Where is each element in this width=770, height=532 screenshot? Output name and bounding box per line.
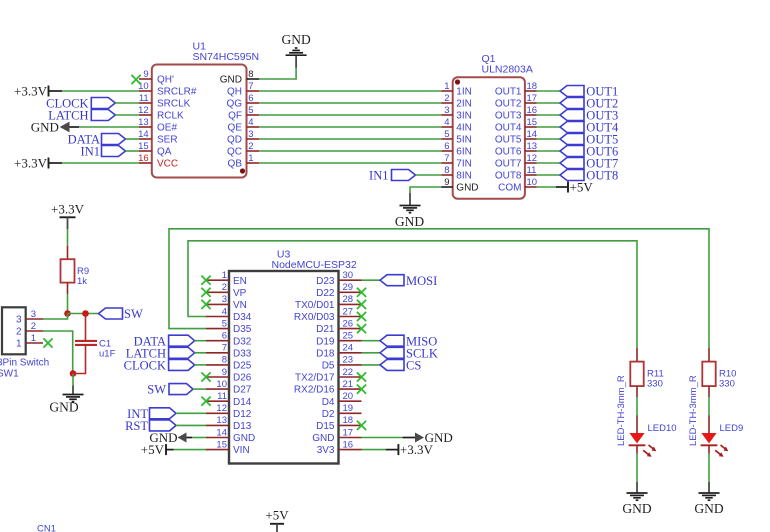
power +3.3V above R9 <box>51 202 85 230</box>
svg-text:6IN: 6IN <box>456 147 472 158</box>
wire Q1 OUT7 to flag <box>537 162 561 164</box>
svg-text:5IN: 5IN <box>456 135 472 146</box>
svg-text:GND: GND <box>456 183 478 194</box>
wire +3.3V to R9 <box>67 229 69 246</box>
svg-text:3: 3 <box>444 105 449 116</box>
svg-text:D21: D21 <box>316 324 335 335</box>
svg-text:10: 10 <box>216 379 227 390</box>
power +3.3V at U1 pin 10 <box>14 84 62 99</box>
svg-text:3: 3 <box>248 129 253 140</box>
svg-text:TX0/D01: TX0/D01 <box>295 300 335 311</box>
netflag IN1 flag (at Q1) <box>392 170 416 181</box>
svg-text:D12: D12 <box>233 409 252 420</box>
svg-text:OUT3: OUT3 <box>495 111 522 122</box>
svg-text:12: 12 <box>138 105 149 116</box>
Q1 pin-1 marker dot <box>455 79 460 84</box>
wire CLOCK to U1 pin 11 <box>115 102 139 104</box>
wire CLOCK to U3 <box>195 364 206 366</box>
module U3 NodeMCU-ESP32 body <box>229 271 339 464</box>
svg-text:ULN2803A: ULN2803A <box>482 63 533 75</box>
svg-text:LED10: LED10 <box>648 423 677 434</box>
svg-text:IN1: IN1 <box>369 169 388 183</box>
Q1 pin 1 1IN <box>441 90 453 92</box>
wire U3 pin 30 to MOSI flag <box>362 279 381 281</box>
resistor R11 body <box>630 362 643 387</box>
wire R10 to LED9 <box>708 397 710 416</box>
U1 pin 11 SRCLK <box>139 102 152 104</box>
U3 pin 1 EN <box>206 279 229 281</box>
svg-text:8: 8 <box>248 69 253 80</box>
Q1 pin 11 OUT8 <box>525 174 537 176</box>
svg-text:D25: D25 <box>233 361 252 372</box>
svg-text:16: 16 <box>527 105 538 116</box>
svg-text:11: 11 <box>527 165 537 176</box>
LED LED9 emission arrows <box>715 445 728 457</box>
svg-text:26: 26 <box>343 318 354 329</box>
ground GND at U3 pin 17 <box>403 430 453 445</box>
svg-text:SW: SW <box>124 307 143 321</box>
SW1 pin 2 <box>26 330 43 332</box>
svg-text:CLOCK: CLOCK <box>124 359 166 373</box>
U3 pin 4 D34 <box>206 316 229 318</box>
svg-text:OUT8: OUT8 <box>495 171 522 182</box>
svg-text:QC: QC <box>227 147 242 158</box>
U1 pin 2 QC <box>247 150 260 152</box>
resistor R9 bottom lead <box>67 283 69 294</box>
svg-text:+5V: +5V <box>141 442 165 457</box>
svg-text:1k: 1k <box>77 276 87 287</box>
LED LED10 triangle <box>629 433 644 443</box>
no-connect X on U3 pin 27 <box>357 312 366 321</box>
U1 pin 7 QH <box>247 90 260 92</box>
svg-text:2: 2 <box>248 141 253 152</box>
svg-text:18: 18 <box>527 81 538 92</box>
svg-text:D19: D19 <box>316 336 335 347</box>
U1 pin-1 marker dot <box>240 168 245 173</box>
ground symbol GND (below LED9) <box>708 482 710 493</box>
wire QB-7IN <box>259 162 441 164</box>
netflag OUT4 flag <box>560 122 584 133</box>
no-connect X on U3 pin 26 <box>357 324 366 333</box>
no-connect X on U3 pin 18 <box>357 421 366 430</box>
svg-text:QH: QH <box>227 87 242 98</box>
svg-text:GND: GND <box>31 120 59 135</box>
wire LED9 to GND <box>708 454 710 482</box>
svg-text:+5V: +5V <box>265 508 289 523</box>
svg-text:EN: EN <box>233 276 247 287</box>
power +5V (bottom) <box>265 508 289 532</box>
svg-text:+3.3V: +3.3V <box>14 156 48 171</box>
IC Q1 ULN2803A body <box>453 77 525 198</box>
svg-text:5: 5 <box>248 105 253 116</box>
LED LED10 cathode bar <box>629 444 646 446</box>
netflag LATCH flag (at U3) <box>169 347 195 358</box>
svg-text:27: 27 <box>343 306 354 317</box>
svg-text:22: 22 <box>343 367 354 378</box>
wire LATCH to U3 <box>195 352 206 354</box>
svg-text:30: 30 <box>343 270 354 281</box>
svg-text:D27: D27 <box>233 385 252 396</box>
U3 pin 5 D35 <box>206 328 229 330</box>
svg-text:SW: SW <box>147 383 166 397</box>
U3 pin 28 TX0/D01 <box>339 303 362 305</box>
wire INT to U3 <box>176 412 206 414</box>
U1 pin 14 SER <box>139 138 152 140</box>
wire Q1 OUT4 to flag <box>537 126 561 128</box>
netflag DATA flag <box>102 134 126 145</box>
netflag SW flag (at switch) <box>99 308 123 319</box>
svg-text:330: 330 <box>647 379 663 390</box>
svg-text:D34: D34 <box>233 312 252 323</box>
svg-text:12: 12 <box>216 403 227 414</box>
svg-text:2: 2 <box>222 282 227 293</box>
U3 pin 13 D13 <box>206 424 229 426</box>
no-connect X on U3 pin 3 <box>201 300 210 309</box>
svg-text:13: 13 <box>138 117 149 128</box>
U3 pin 29 D22 <box>339 291 362 293</box>
U1 pin 3 QD <box>247 138 260 140</box>
resistor R10 body <box>702 362 715 387</box>
U3 pin 18 D15 <box>339 424 362 426</box>
netflag OUT8 flag <box>560 170 584 181</box>
netflag IN1 flag (left) <box>102 146 126 157</box>
netflag INT flag <box>150 408 177 419</box>
netflag MOSI flag <box>380 275 404 286</box>
svg-text:15: 15 <box>216 439 227 450</box>
wire switch pin 2 to ground node <box>43 331 73 374</box>
svg-text:D4: D4 <box>322 397 335 408</box>
LED LED9 cathode lead <box>708 445 710 453</box>
svg-text:LED9: LED9 <box>720 423 744 434</box>
svg-text:GND: GND <box>281 32 310 47</box>
svg-text:LED-TH-3mm_R: LED-TH-3mm_R <box>688 375 699 446</box>
wire junction to SW flag <box>68 313 99 315</box>
netflag OUT6 flag <box>560 146 584 157</box>
svg-text:5: 5 <box>444 129 449 140</box>
wire IN1 to U1 pin 15 <box>126 150 140 152</box>
wire IN1 to Q1 pin 8 <box>416 174 442 176</box>
Q1 pin 3 3IN <box>441 114 453 116</box>
svg-text:QG: QG <box>226 99 242 110</box>
svg-text:21: 21 <box>343 379 354 390</box>
svg-text:17: 17 <box>343 427 354 438</box>
svg-text:+3.3V: +3.3V <box>400 442 434 457</box>
Q1 pin 16 OUT3 <box>525 114 537 116</box>
wire Q1 OUT2 to flag <box>537 102 561 104</box>
svg-text:6: 6 <box>222 331 227 342</box>
svg-text:SRCLK: SRCLK <box>157 99 191 110</box>
svg-text:SRCLR#: SRCLR# <box>157 87 197 98</box>
wire U3 pin 16 to +3.3V <box>362 449 386 451</box>
ground GND at U3 pin 14 <box>149 430 192 445</box>
svg-text:QH': QH' <box>157 75 174 86</box>
svg-text:3: 3 <box>31 309 36 320</box>
svg-text:4: 4 <box>248 117 253 128</box>
U3 pin 22 TX2/D17 <box>339 376 362 378</box>
svg-text:20: 20 <box>343 391 354 402</box>
no-connect X on SW1 pin 1 <box>43 338 52 347</box>
U3 pin 30 D23 <box>339 279 362 281</box>
svg-text:SER: SER <box>157 135 178 146</box>
svg-text:23: 23 <box>343 355 354 366</box>
U3 pin 12 D12 <box>206 412 229 414</box>
netflag MISO flag <box>380 335 404 346</box>
svg-text:5: 5 <box>222 318 227 329</box>
U3 pin 11 D14 <box>206 400 229 402</box>
svg-text:CN1: CN1 <box>37 524 56 532</box>
resistor R11 bottom lead <box>636 386 638 397</box>
resistor R10 top lead <box>708 348 710 362</box>
U3 pin 26 D21 <box>339 328 362 330</box>
no-connect X on U3 pin 29 <box>357 288 366 297</box>
svg-text:VN: VN <box>233 300 247 311</box>
SW1 pin 3 <box>26 318 43 320</box>
svg-text:28: 28 <box>343 294 354 305</box>
svg-text:11: 11 <box>217 391 227 402</box>
netflag DATA flag (at U3) <box>169 335 195 346</box>
switch SW1 body <box>2 307 26 354</box>
svg-text:10: 10 <box>527 177 538 188</box>
svg-text:7: 7 <box>222 343 227 354</box>
netflag OUT5 flag <box>560 134 584 145</box>
U1 pin 10 SRCLR# <box>139 90 152 92</box>
svg-text:VCC: VCC <box>157 159 178 170</box>
svg-text:TX2/D17: TX2/D17 <box>295 373 335 384</box>
U3 pin 17 GND <box>339 437 362 439</box>
resistor R10 bottom lead <box>708 386 710 397</box>
resistor R9 top lead <box>67 246 69 259</box>
U1 pin 6 QG <box>247 102 260 104</box>
svg-text:7IN: 7IN <box>456 159 472 170</box>
svg-text:RX2/D16: RX2/D16 <box>294 385 335 396</box>
LED LED10 emission arrows <box>643 445 656 457</box>
wire U3 to CS flag <box>362 364 381 366</box>
svg-text:D26: D26 <box>233 373 252 384</box>
svg-text:D33: D33 <box>233 348 252 359</box>
Q1 pin 4 4IN <box>441 126 453 128</box>
svg-text:OE#: OE# <box>157 123 177 134</box>
no-connect X on U3 pin 9 <box>201 372 210 381</box>
LED LED10 anode lead <box>636 416 638 434</box>
Q1 pin 10 COM <box>525 186 537 188</box>
wire net D35 (outer loop, U3 pin 5 to R10) <box>169 229 709 348</box>
U3 pin 20 D4 <box>339 400 362 402</box>
no-connect X on U3 pin 11 <box>201 397 210 406</box>
svg-text:LED-TH-3mm_R: LED-TH-3mm_R <box>616 375 627 446</box>
SW1 pin 1 <box>26 342 43 344</box>
svg-text:+3.3V: +3.3V <box>51 202 85 217</box>
U3 pin 19 D2 <box>339 412 362 414</box>
no-connect X on U3 pin 2 <box>201 288 210 297</box>
no-connect X on U3 pin 1 <box>201 276 210 285</box>
wire Q1 OUT6 to flag <box>537 150 561 152</box>
svg-text:CS: CS <box>406 359 421 373</box>
wire Q1 OUT8 to flag <box>537 174 561 176</box>
U3 pin 25 D19 <box>339 340 362 342</box>
ground symbol GND (below C1) <box>72 386 74 395</box>
svg-text:D5: D5 <box>322 361 335 372</box>
U1 pin 1 QB <box>247 162 260 164</box>
svg-text:COM: COM <box>498 183 521 194</box>
svg-text:18: 18 <box>343 415 354 426</box>
U3 pin 7 D33 <box>206 352 229 354</box>
svg-text:15: 15 <box>527 117 538 128</box>
wire Q1 OUT1 to flag <box>537 90 561 92</box>
U1 pin 12 RCLK <box>139 114 152 116</box>
U3 pin 9 D26 <box>206 376 229 378</box>
svg-text:6: 6 <box>444 141 449 152</box>
svg-text:1: 1 <box>16 339 22 350</box>
wire R9 to junction <box>67 294 69 314</box>
no-connect X on U3 pin 21 <box>357 385 366 394</box>
capacitor C1 top lead <box>85 314 87 341</box>
svg-text:RST: RST <box>125 419 148 433</box>
svg-text:16: 16 <box>343 439 354 450</box>
ground symbol GND (below Q1) <box>409 193 411 205</box>
svg-text:D2: D2 <box>322 409 335 420</box>
svg-text:11: 11 <box>139 93 149 104</box>
wire net D34 (inner loop, U3 pin 4 to R11) <box>188 241 637 348</box>
svg-text:OUT2: OUT2 <box>495 99 522 110</box>
svg-text:17: 17 <box>527 93 538 104</box>
svg-text:GND: GND <box>312 433 334 444</box>
U3 pin 14 GND <box>206 437 229 439</box>
wire U1 pin 8 to ground symbol <box>259 68 296 79</box>
svg-text:u1F: u1F <box>99 349 116 360</box>
wire DATA to U1 pin 14 <box>126 138 140 140</box>
svg-text:GND: GND <box>694 501 723 516</box>
svg-text:VP: VP <box>233 288 247 299</box>
svg-text:OUT6: OUT6 <box>495 147 522 158</box>
svg-text:3IN: 3IN <box>456 111 472 122</box>
svg-text:OUT1: OUT1 <box>495 87 522 98</box>
LED LED9 anode lead <box>708 416 710 434</box>
capacitor C1 bottom lead <box>73 345 86 374</box>
svg-text:4IN: 4IN <box>456 123 472 134</box>
netflag SCLK flag <box>380 347 404 358</box>
power +5V at Q1 pin 10 COM <box>556 180 593 195</box>
wire GND to U1 pin 13 <box>79 126 139 128</box>
svg-text:7: 7 <box>248 81 253 92</box>
resistor R9 body <box>61 259 75 282</box>
wire node to GND below C1 <box>72 374 74 386</box>
netflag OUT1 flag <box>560 86 584 97</box>
netflag CLOCK flag <box>91 98 115 109</box>
netflag SW flag (at U3) <box>169 384 193 395</box>
svg-text:9: 9 <box>222 367 227 378</box>
svg-text:14: 14 <box>216 427 227 438</box>
node junction at C1 bottom <box>70 370 77 377</box>
netflag CS flag <box>380 359 404 370</box>
wire +3.3V to U1 pin 16 <box>62 162 139 164</box>
wire +3.3V to U1 pin 10 <box>62 90 139 92</box>
svg-text:8IN: 8IN <box>456 171 472 182</box>
netflag OUT2 flag <box>560 98 584 109</box>
svg-text:12: 12 <box>527 153 538 164</box>
svg-text:24: 24 <box>343 343 354 354</box>
ground symbol GND (below LED10) <box>636 482 638 493</box>
svg-text:D18: D18 <box>316 348 335 359</box>
svg-text:3: 3 <box>16 315 22 326</box>
svg-text:4: 4 <box>222 306 227 317</box>
U3 pin 6 D32 <box>206 340 229 342</box>
svg-text:IN1: IN1 <box>81 145 100 159</box>
svg-text:3V3: 3V3 <box>317 445 335 456</box>
U3 pin 16 3V3 <box>339 449 362 451</box>
svg-text:9: 9 <box>143 69 148 80</box>
Q1 pin 7 7IN <box>441 162 453 164</box>
U3 pin 21 RX2/D16 <box>339 388 362 390</box>
svg-text:15: 15 <box>138 141 149 152</box>
U1 pin 15 QA <box>139 150 152 152</box>
netflag OUT7 flag <box>560 158 584 169</box>
resistor R11 top lead <box>636 348 638 362</box>
ground symbol GND (top, near U1) <box>295 55 297 68</box>
U3 pin 8 D25 <box>206 364 229 366</box>
svg-text:GND: GND <box>233 433 255 444</box>
svg-text:OUT8: OUT8 <box>586 169 618 183</box>
svg-text:NodeMCU-ESP32: NodeMCU-ESP32 <box>272 259 357 271</box>
wire LATCH to U1 pin 12 <box>115 114 139 116</box>
svg-text:3Pin Switch: 3Pin Switch <box>0 357 49 368</box>
Q1 pin 12 OUT7 <box>525 162 537 164</box>
svg-text:9: 9 <box>444 177 449 188</box>
svg-text:2: 2 <box>444 93 449 104</box>
U3 pin 3 VN <box>206 303 229 305</box>
U3 pin 23 D5 <box>339 364 362 366</box>
U1 pin 16 VCC <box>139 162 152 164</box>
LED LED10 cathode lead <box>636 445 638 453</box>
U1 pin 8 GND <box>247 78 260 80</box>
svg-text:RX0/D03: RX0/D03 <box>294 312 335 323</box>
svg-text:1: 1 <box>444 81 449 92</box>
svg-text:SW1: SW1 <box>0 368 19 379</box>
svg-text:D14: D14 <box>233 397 252 408</box>
svg-text:D13: D13 <box>233 421 252 432</box>
U3 pin 15 VIN <box>206 449 229 451</box>
svg-text:14: 14 <box>527 129 538 140</box>
svg-text:7: 7 <box>444 153 449 164</box>
svg-text:QB: QB <box>228 159 243 170</box>
Q1 pin 9 GND <box>441 186 453 188</box>
netflag OUT3 flag <box>560 110 584 121</box>
U1 pin 9 QH' <box>139 78 152 80</box>
svg-text:8: 8 <box>444 165 449 176</box>
wire LED10 to GND <box>636 454 638 482</box>
svg-text:D32: D32 <box>233 336 252 347</box>
svg-text:QD: QD <box>227 135 242 146</box>
Q1 pin 2 2IN <box>441 102 453 104</box>
wire U3 to MISO flag <box>362 340 381 342</box>
power +3.3V at U1 pin 16 VCC <box>14 156 62 171</box>
wire U3 pin 17 to GND <box>362 437 403 439</box>
netflag RST flag <box>150 420 177 431</box>
svg-text:8: 8 <box>222 355 227 366</box>
svg-text:13: 13 <box>527 141 538 152</box>
svg-text:GND: GND <box>395 214 424 229</box>
Q1 pin 6 6IN <box>441 150 453 152</box>
wire QD-5IN <box>259 138 441 140</box>
netflag CLOCK flag (at U3) <box>169 359 195 370</box>
svg-text:D23: D23 <box>316 276 335 287</box>
U3 pin 2 VP <box>206 291 229 293</box>
svg-text:14: 14 <box>138 129 149 140</box>
Q1 pin 13 OUT6 <box>525 150 537 152</box>
wire COM to +5V <box>537 186 557 188</box>
svg-text:29: 29 <box>343 282 354 293</box>
wire Q1 pin 9 to ground <box>410 187 441 193</box>
U3 pin 10 D27 <box>206 388 229 390</box>
